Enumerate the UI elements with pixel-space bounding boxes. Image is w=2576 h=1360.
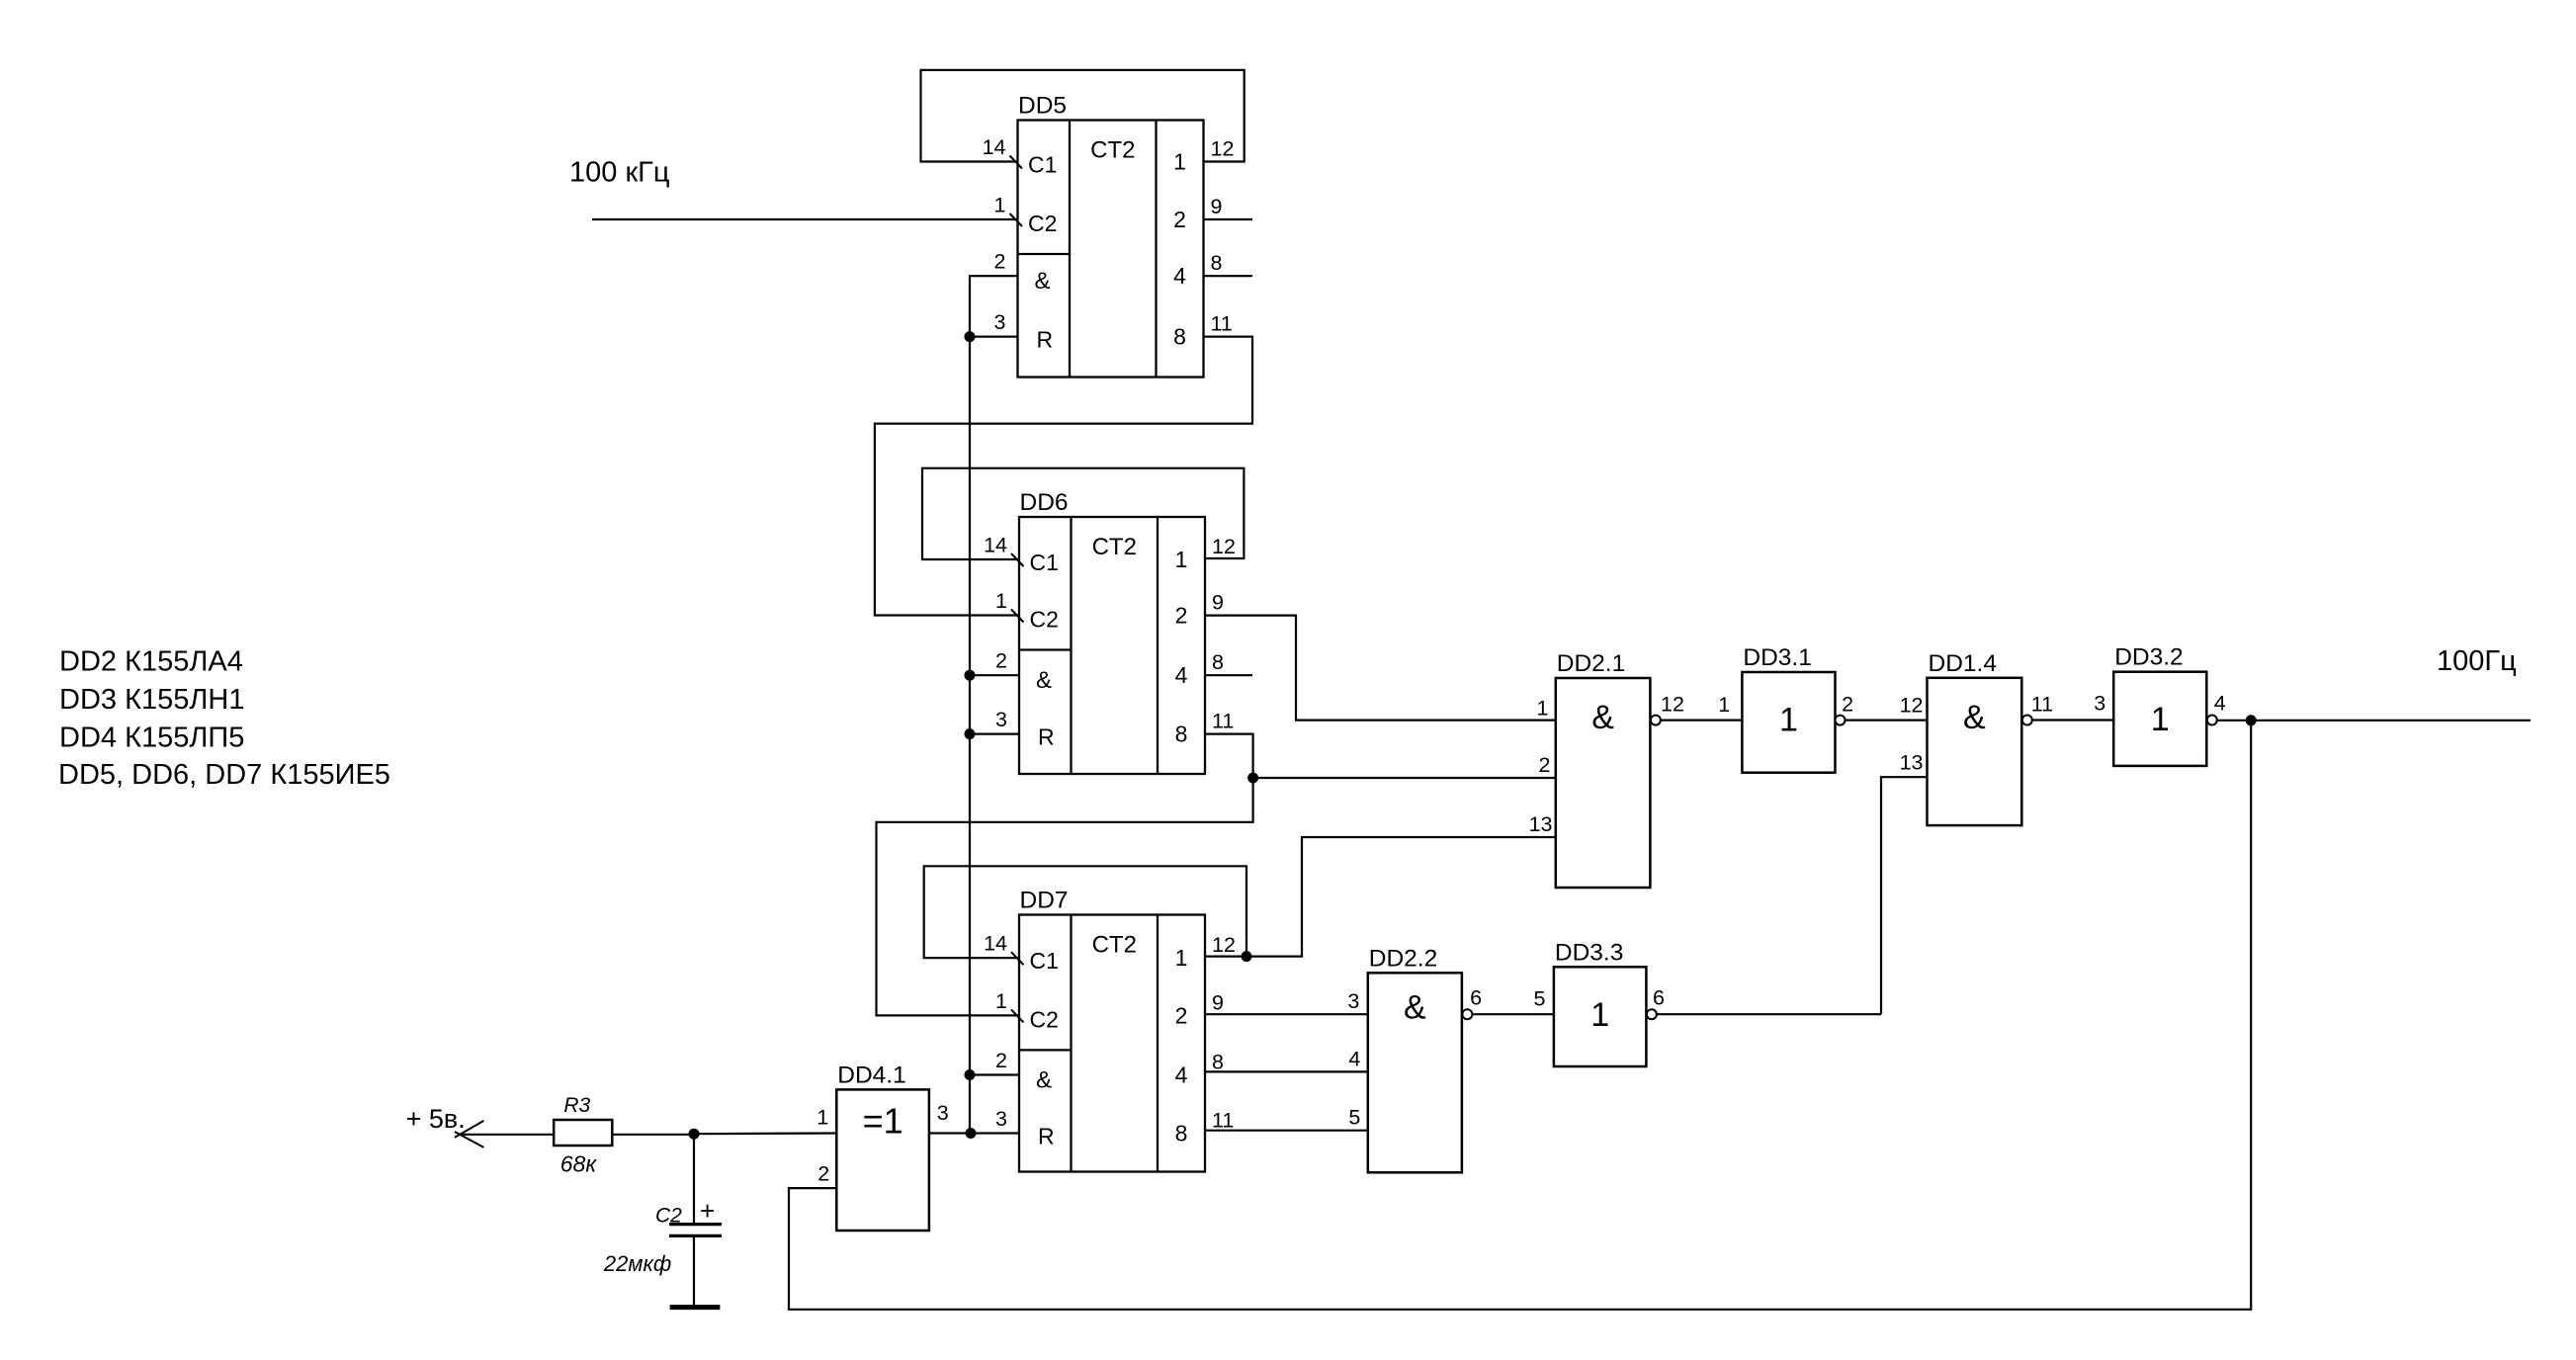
svg-text:DD5: DD5 [1018, 93, 1067, 120]
svg-text:1: 1 [2151, 701, 2170, 738]
svg-text:11: 11 [1212, 1109, 1234, 1133]
svg-text:1: 1 [1175, 547, 1188, 572]
svg-text:2: 2 [1175, 1002, 1188, 1028]
svg-text:6: 6 [1653, 985, 1665, 1009]
svg-text:DD4 К155ЛП5: DD4 К155ЛП5 [59, 722, 244, 753]
svg-text:6: 6 [1470, 985, 1482, 1009]
svg-text:12: 12 [1211, 137, 1235, 161]
svg-text:1: 1 [1779, 702, 1798, 739]
svg-text:&: & [1036, 667, 1052, 694]
svg-text:4: 4 [1175, 662, 1188, 688]
svg-text:3: 3 [995, 1107, 1007, 1131]
svg-text:&: & [1035, 268, 1051, 295]
svg-text:2: 2 [995, 649, 1007, 673]
svg-text:DD3.2: DD3.2 [2114, 644, 2183, 671]
svg-text:12: 12 [1212, 933, 1236, 957]
svg-text:2: 2 [817, 1161, 829, 1185]
svg-text:8: 8 [1173, 324, 1186, 350]
svg-text:12: 12 [1212, 535, 1236, 558]
svg-text:DD4.1: DD4.1 [837, 1062, 905, 1088]
svg-text:1: 1 [994, 194, 1006, 217]
svg-text:&: & [1591, 699, 1614, 736]
svg-text:3: 3 [937, 1101, 949, 1125]
svg-text:R: R [1038, 724, 1055, 750]
svg-text:100 кГц: 100 кГц [569, 157, 669, 189]
svg-text:R: R [1037, 327, 1054, 353]
svg-text:8: 8 [1175, 1121, 1188, 1147]
svg-text:14: 14 [984, 932, 1007, 956]
svg-text:3: 3 [995, 708, 1007, 731]
svg-text:12: 12 [1661, 693, 1684, 717]
svg-text:2: 2 [1539, 753, 1551, 777]
svg-text:9: 9 [1212, 990, 1224, 1014]
svg-text:&: & [1404, 988, 1426, 1026]
svg-text:11: 11 [1211, 312, 1233, 336]
svg-text:9: 9 [1212, 591, 1224, 615]
svg-text:DD3.1: DD3.1 [1743, 644, 1811, 671]
svg-text:DD2.2: DD2.2 [1369, 945, 1437, 972]
svg-text:13: 13 [1529, 812, 1553, 836]
svg-text:11: 11 [1212, 710, 1234, 733]
svg-text:3: 3 [2094, 692, 2105, 716]
svg-text:DD2 К155ЛА4: DD2 К155ЛА4 [59, 646, 243, 678]
svg-text:=1: =1 [863, 1100, 903, 1141]
svg-text:&: & [1036, 1067, 1052, 1094]
svg-text:C1: C1 [1028, 152, 1057, 178]
svg-text:1: 1 [1537, 696, 1549, 720]
svg-text:R: R [1038, 1124, 1055, 1149]
svg-text:DD3.3: DD3.3 [1555, 939, 1623, 966]
svg-text:3: 3 [1347, 989, 1359, 1013]
svg-text:+: + [700, 1196, 715, 1226]
svg-text:C2: C2 [655, 1204, 682, 1227]
svg-text:C1: C1 [1030, 948, 1059, 974]
svg-text:5: 5 [1534, 987, 1546, 1011]
svg-text:DD1.4: DD1.4 [1929, 650, 1997, 677]
svg-text:4: 4 [1175, 1062, 1188, 1088]
svg-text:8: 8 [1212, 650, 1224, 674]
svg-text:DD5, DD6, DD7 К155ИЕ5: DD5, DD6, DD7 К155ИЕ5 [58, 759, 390, 791]
svg-text:3: 3 [994, 310, 1006, 334]
svg-text:1: 1 [1718, 693, 1730, 717]
svg-text:1: 1 [995, 589, 1007, 613]
svg-text:C1: C1 [1030, 550, 1059, 575]
svg-text:68к: 68к [560, 1151, 598, 1177]
svg-text:+ 5в.: + 5в. [406, 1104, 466, 1134]
svg-text:CT2: CT2 [1090, 137, 1135, 164]
svg-text:CT2: CT2 [1092, 932, 1137, 959]
svg-text:DD3 К155ЛН1: DD3 К155ЛН1 [59, 684, 244, 716]
svg-text:2: 2 [1842, 693, 1853, 717]
svg-text:9: 9 [1211, 195, 1223, 218]
svg-text:R3: R3 [563, 1094, 590, 1117]
svg-text:11: 11 [2031, 693, 2053, 717]
svg-text:1: 1 [1173, 149, 1186, 175]
svg-text:8: 8 [1211, 251, 1223, 275]
svg-text:4: 4 [2214, 692, 2226, 716]
svg-text:&: & [1963, 699, 1986, 736]
svg-text:100Гц: 100Гц [2437, 645, 2517, 677]
svg-text:DD2.1: DD2.1 [1557, 650, 1625, 677]
svg-text:2: 2 [1175, 603, 1188, 629]
svg-text:22мкф: 22мкф [603, 1251, 671, 1276]
svg-text:C2: C2 [1030, 1006, 1059, 1032]
svg-text:2: 2 [1173, 207, 1186, 232]
svg-text:12: 12 [1900, 694, 1924, 718]
svg-text:2: 2 [995, 1049, 1007, 1072]
svg-text:5: 5 [1348, 1106, 1360, 1130]
svg-text:1: 1 [995, 989, 1007, 1013]
svg-text:1: 1 [816, 1106, 828, 1130]
svg-text:4: 4 [1348, 1047, 1360, 1070]
svg-text:13: 13 [1900, 751, 1924, 775]
svg-text:8: 8 [1175, 722, 1188, 747]
svg-text:DD7: DD7 [1020, 888, 1069, 914]
svg-text:DD6: DD6 [1020, 489, 1069, 516]
svg-text:2: 2 [994, 250, 1006, 274]
svg-text:CT2: CT2 [1092, 534, 1137, 560]
svg-text:4: 4 [1173, 263, 1186, 289]
svg-text:C2: C2 [1030, 607, 1059, 633]
svg-text:1: 1 [1590, 996, 1609, 1034]
svg-text:C2: C2 [1028, 211, 1057, 236]
svg-text:1: 1 [1175, 945, 1188, 971]
svg-text:14: 14 [983, 135, 1006, 159]
svg-text:8: 8 [1212, 1051, 1224, 1074]
svg-text:14: 14 [984, 534, 1007, 557]
